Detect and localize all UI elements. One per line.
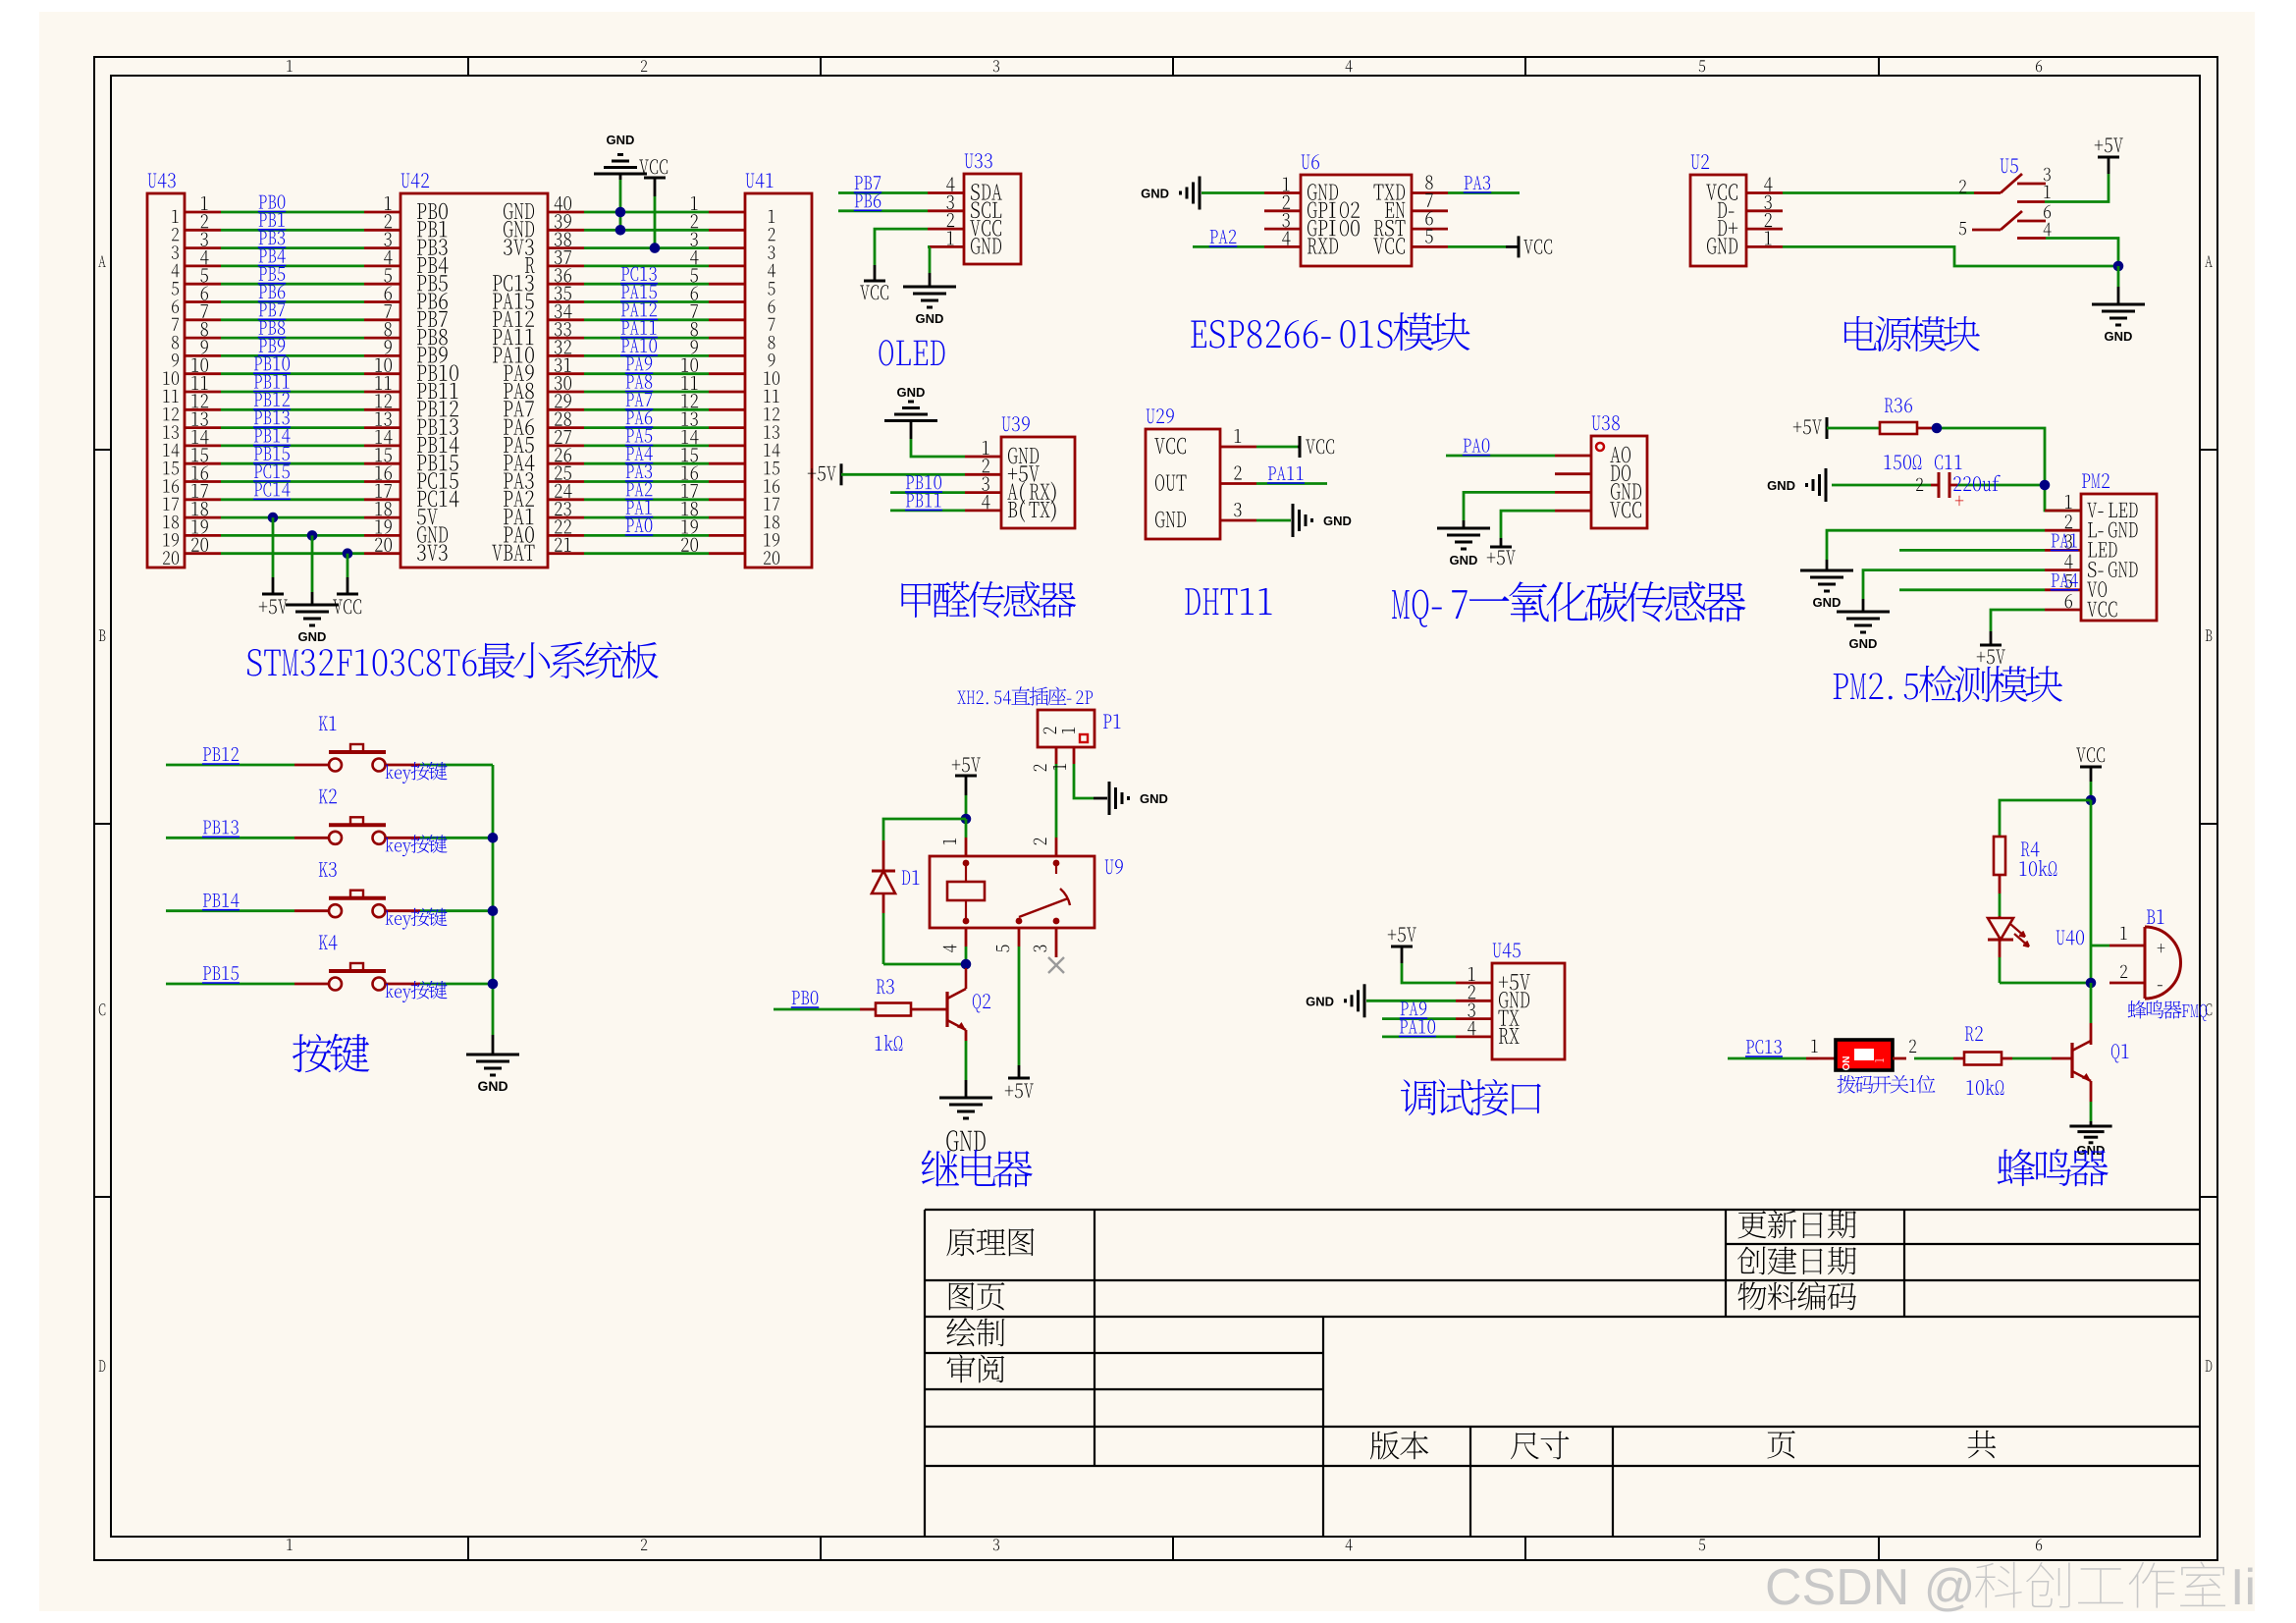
U5 pin6 stub [2017,220,2046,223]
push button K4 [319,935,338,949]
VCC power bar right of U6 [1518,236,1521,257]
wire GND to U45.2 [1366,1000,1456,1002]
wire +5V to U9 pin1 [965,819,968,838]
formaldehyde sensor U39 [1001,437,1075,528]
U6 left pin stubs [1264,191,1301,194]
U42 right pin stubs [548,211,584,214]
key bus vertical wire [492,765,495,1035]
DIP switch label [1838,1075,1936,1094]
title debug interface [1401,1079,1541,1115]
LED U40 [1999,916,2002,918]
DHT11 U29 [1146,429,1220,539]
junction dots GND net [615,207,626,218]
ground symbol right of P1 [1108,782,1111,815]
wire PB0 to R3 [774,1008,860,1011]
wires U43 to U42 with net labels [221,211,364,214]
wire GND to U6.1 [1201,191,1264,194]
wire D1 to relay coil return [882,913,885,964]
wire U29.1 to VCC [1256,446,1298,449]
wire +5V to U5.1 [2108,157,2110,174]
wire VCC vertical to B1 pin1 [2090,800,2093,983]
DIP switch 1bit [1728,1057,1806,1060]
wires U42 to U41 with net labels [584,211,709,214]
U42 left pin stubs [364,211,400,214]
wire Q1 emitter to GND [2090,1081,2093,1102]
ESP8266-01S module U6 [1301,175,1412,266]
wire to ground symbol [2117,266,2120,287]
junction dot C11 to PM2 [2040,480,2051,491]
VCC bar above buzzer [2080,766,2102,769]
+5V bar above debug [1391,946,1413,948]
wire GND to U39.1 [910,421,913,440]
U33 pin stubs [928,191,964,194]
connector P1 [1038,710,1095,747]
ground symbol below U38 [1437,527,1490,530]
net label key of K3 [386,908,448,930]
wire U6.5 to VCC [1448,245,1506,248]
ground symbol left of U45 [1363,984,1366,1017]
wire PA4 to PM2.5 VO [1899,588,2045,591]
junction dot LED return [2086,978,2097,989]
net label key of K4 [386,981,448,1002]
U29 pin stubs [1220,446,1256,449]
svg-text:GND: GND [477,1078,507,1094]
zone row labels [98,255,106,267]
USB power U2 [1690,175,1746,266]
ground symbol below L-GND [1800,569,1853,572]
wire PA2 to U6.4 [1193,245,1264,248]
wire PB7 to U33.4 [838,191,928,194]
svg-text:GND: GND [1140,791,1168,806]
svg-text:GND: GND [1813,595,1842,610]
svg-text:GND: GND [1323,514,1352,528]
ground symbol power module [2092,303,2145,306]
P1 pin2 wire down [1055,747,1058,764]
GND drop from U43 pin19 [307,530,318,541]
svg-text:GND: GND [897,385,926,400]
svg-text:GND: GND [1849,636,1878,651]
wire +5V to U45.1 [1401,947,1404,963]
U9 pin2 stub [1055,838,1058,856]
title STM32F103C8T6 minimal system board [247,641,659,678]
+5V bar below PM2 [1980,644,2002,647]
title DHT11 [1185,588,1271,615]
junction dot after R36 [1932,423,1943,434]
svg-text:GND: GND [298,629,327,644]
svg-text:GND: GND [1306,994,1334,1008]
PM2 pin stubs [2045,510,2081,513]
U9 pin3 no-connect [1055,928,1058,957]
wire K3 to key bus [386,909,421,912]
resistor R36 [1880,422,1917,434]
wire Q2 emitter to GND [965,1030,968,1041]
wire K1 to key bus [386,764,421,767]
wire U5.4 to GND net [2046,239,2118,267]
wire PA9 to U45.3 [1382,1017,1456,1020]
ground symbol right of U29 [1292,504,1295,537]
U5 pin1 stub [2017,200,2045,203]
switch U5 [2001,159,2018,174]
MQ-7 sensor U38 [1591,436,1647,528]
U39 pin stubs [965,456,1001,459]
push button K1 [319,716,337,730]
ground symbol left of C11 [1825,468,1828,502]
wire PB13 to K2 [166,837,294,839]
wire PA1 to PM2.3 LED [1899,549,2045,552]
wire U38 GND to ground [1464,492,1555,520]
title power module [1844,316,1980,352]
wire U29.3 to GND [1256,519,1291,522]
wire PB11 to U39.4 [890,510,965,513]
wire U2.1 to GND net [1783,246,2118,266]
junction dots key bus [488,833,499,843]
U45 pin stubs [1456,982,1492,985]
svg-text:GND: GND [1767,478,1795,493]
title block grid [925,1210,2200,1537]
push button K3 [319,862,337,877]
transistor Q2 [945,992,948,1027]
wire PM2.6 VCC to +5V [1991,610,2045,631]
capacitor C11 [1935,455,1962,469]
+5V bar left of U39 [840,463,843,485]
wire U38 VCC to +5V [1501,511,1555,538]
U2 pin stubs [1746,191,1783,194]
U5 pin3 stub [2017,183,2046,186]
svg-text:GND: GND [1141,187,1169,201]
wire +5V to R36 [1827,427,1880,430]
title formaldehyde sensor [901,581,1076,618]
net label key of K2 [386,835,448,856]
wire K2 to key bus [386,837,421,839]
wire R4 to LED U40 [1999,875,2002,893]
wire U29.2 to PA11 [1256,482,1327,485]
svg-text:GND: GND [2077,1143,2106,1158]
+5V drop from U43 pin18 [268,513,279,523]
svg-text:ON: ON [1842,1056,1852,1071]
wire R3 to Q2 base [911,1008,947,1011]
wire junction branch [1936,427,1938,429]
U5 lower pole pin5 [1959,222,1966,235]
junction dot relay +5V [961,814,972,825]
wire U6.8 to PA3 [1448,191,1520,194]
wire VCC to R4 [2000,800,2091,837]
B1 pin stubs [2109,945,2145,947]
+5V bar above relay [955,775,977,778]
VCC power bar above U42-U41 (pin 38) [644,177,666,180]
+5V bar below U38 [1490,546,1512,549]
zone row ticks [94,449,111,451]
wire +5V to D1 top [883,819,966,840]
wire bus to ground [492,1035,495,1055]
junction dot GND net power module [2113,261,2124,272]
wire K4 to key bus [386,983,421,986]
buzzer B1 [2147,909,2164,924]
connector U41 [745,193,812,568]
U9 pin5 wire to +5V [1018,928,1021,947]
wire PA0 to U38 AO [1446,455,1555,458]
ground symbol left of U6 [1199,177,1201,210]
relay U9 [930,856,1095,928]
ground symbol below S-GND [1837,611,1890,614]
ground symbol below OLED [903,286,956,289]
zone column labels [287,60,293,72]
ground symbol keys [466,1054,519,1056]
wire junction to Q1 collector [2090,983,2093,1023]
title block texts [946,1228,1034,1256]
title MQ-7 carbon monoxide sensor [1392,581,1745,627]
title keys [293,1034,369,1073]
junction dot VCC net [650,243,661,253]
wire PM2.4 S-GND to ground [1863,570,2045,599]
+5V bar below relay [1008,1077,1030,1080]
title buzzer [1998,1149,2109,1186]
U9 pin4 wire to Q2 [965,928,968,947]
wire PM2.2 L-GND to ground [1827,530,2045,560]
wire U33.1 to GND [928,245,930,248]
title OLED [880,340,945,365]
wire PB6 to U33.3 [838,209,928,212]
transistor Q1 [2070,1043,2073,1078]
VCC power bar below OLED [864,280,885,283]
wire U2.4 to switch U5 pin2 [1783,191,1974,194]
resistor R2 [1964,1053,2002,1065]
wire PB10 to U39.3 [890,491,965,494]
wire U33.2 to VCC [875,229,928,265]
wire PB12 to K1 [166,764,294,767]
wire R2 to Q1 base [2002,1057,2012,1060]
wire PA10 to U45.4 [1382,1036,1456,1039]
svg-text:CSDN @: CSDN @ [1765,1559,1976,1616]
svg-text:GND: GND [607,133,635,147]
VCC drop from U43 pin20 [343,548,353,559]
ground symbol below Q2 [939,1097,992,1100]
svg-text:Ii: Ii [2230,1559,2256,1616]
ground symbol below Q1 [2069,1125,2111,1128]
junction dot VCC buzzer [2086,795,2097,806]
resistor R4 [1994,837,2005,875]
svg-text:GND: GND [916,311,944,326]
MCU U42 [400,193,548,568]
wire DIP to R2 [1893,1057,1906,1060]
ground symbol above U42-U41 (pins 40,39) [594,173,647,176]
U5 pin4 stub [2017,237,2046,240]
wire LED to junction [1999,940,2002,957]
push button K2 [319,789,337,804]
+5V bar left of R36 [1826,417,1829,439]
junction dot relay drive [961,959,972,970]
OLED module U33 [964,174,1021,264]
P1 pin1 wire to ground [1073,747,1076,764]
net label key of K1 [386,762,448,784]
title ESP8266-01S module [1191,312,1469,351]
resistor R3 [876,1003,911,1016]
U43 pin stubs [185,211,221,214]
wire R36 to PM2 pin1 [1917,427,1937,430]
PM2.5 sensor PM2 [2081,494,2157,621]
diode D1 [882,840,885,871]
svg-text:GND: GND [1450,553,1478,568]
connector U43 [147,193,185,568]
title relay [922,1150,1033,1187]
+5V power bar top right [2098,156,2119,159]
buzzer FMQ label [2128,1001,2208,1021]
zone column ticks [467,57,469,76]
title PM2.5 detection module [1834,666,2062,702]
debug port U45 [1492,963,1565,1059]
U41 pin stubs [709,211,745,214]
U38 pin stubs [1555,455,1591,458]
wire PB14 to K3 [166,909,294,912]
wire PB15 to K4 [166,983,294,986]
wire +5V to U39.2 [841,473,965,476]
U6 right pin stubs [1412,191,1448,194]
svg-text:GND: GND [2105,329,2133,344]
